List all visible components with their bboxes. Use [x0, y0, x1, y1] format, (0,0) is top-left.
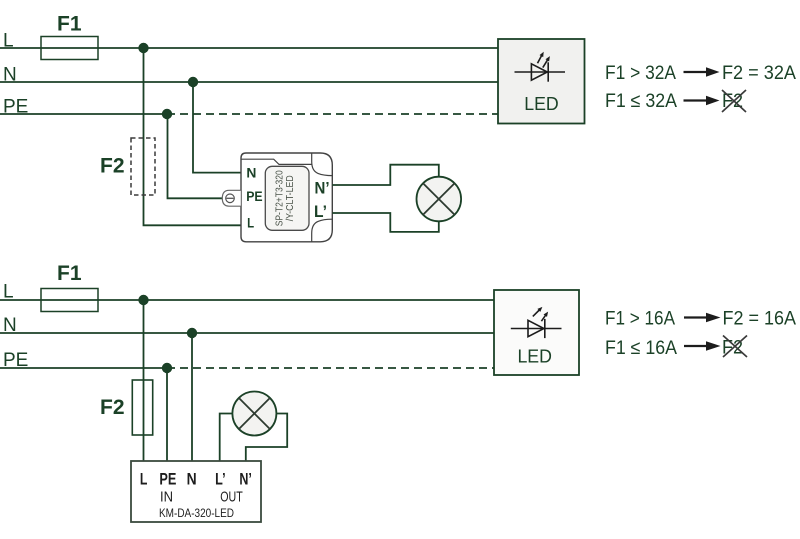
wire L bus top [0, 47, 498, 49]
SPD tab cut bottom-right [312, 219, 333, 242]
svg-text:L’: L’ [314, 202, 327, 221]
svg-text:L’: L’ [215, 470, 226, 489]
arrow 1 top [684, 71, 709, 73]
wire PE bus dashed bottom [167, 367, 494, 369]
SPD PE screw tab [222, 190, 241, 206]
fuse F2 bottom [132, 380, 152, 435]
wire lamp left bottom [220, 414, 233, 468]
LED diode symbol bottom [511, 309, 562, 338]
svg-text:N: N [3, 315, 17, 336]
SPD type text rotated [274, 170, 297, 226]
svg-text:F2 = 32A: F2 = 32A [722, 62, 796, 84]
svg-text:N: N [246, 165, 256, 180]
wire PE bus dashed top [167, 113, 498, 115]
fuse F1 bottom [41, 289, 98, 312]
device KM-DA-320-LED box [131, 461, 261, 522]
svg-text:PE: PE [3, 350, 28, 371]
fuse F1 top [41, 37, 98, 60]
wire PE drop top [168, 114, 224, 198]
svg-text:F1: F1 [57, 13, 82, 36]
svg-text:L: L [247, 216, 254, 231]
wire N bus bottom [0, 332, 494, 334]
svg-text:PE: PE [246, 189, 262, 204]
wire PE bus solid bottom [0, 367, 167, 369]
svg-text:F2 = 16A: F2 = 16A [723, 308, 797, 330]
wire L bus bottom [0, 299, 494, 301]
node L junction top [138, 43, 148, 53]
svg-text:F2: F2 [100, 396, 125, 419]
wire PE bus solid top [0, 113, 167, 115]
lamp E2 bottom [232, 392, 276, 436]
LED luminaire box bottom [494, 290, 579, 375]
SPD PE screw head [226, 194, 235, 203]
SPD lid line [241, 159, 312, 164]
LED luminaire box top [498, 39, 585, 124]
svg-text:F1 ≤ 32A: F1 ≤ 32A [605, 90, 677, 112]
svg-text:N’: N’ [315, 178, 330, 197]
node N junction bottom [187, 328, 197, 338]
svg-text:/Y-CLT-LED: /Y-CLT-LED [284, 175, 296, 221]
arrow 2 top [684, 99, 709, 101]
wire L drop bottom [143, 300, 145, 467]
LED diode symbol top [515, 54, 566, 81]
SPD label plate [265, 166, 309, 230]
svg-text:L: L [3, 282, 14, 303]
wire N drop bottom [191, 333, 193, 467]
node N junction top [188, 77, 198, 87]
svg-text:LED: LED [524, 93, 559, 114]
SPD tab cut top-right [312, 153, 333, 176]
node PE junction top [162, 109, 172, 119]
node L junction bottom [138, 295, 148, 305]
lamp E1 top [417, 177, 462, 222]
svg-text:OUT: OUT [220, 489, 243, 506]
svg-text:F1: F1 [57, 262, 82, 285]
svg-text:PE: PE [159, 470, 176, 489]
svg-text:PE: PE [3, 97, 28, 118]
node PE junction bottom [162, 363, 172, 373]
svg-text:KM-DA-320-LED: KM-DA-320-LED [159, 508, 234, 520]
svg-text:F1 ≤ 16A: F1 ≤ 16A [605, 337, 677, 359]
SPD module U1 body top [241, 153, 332, 242]
svg-text:N’: N’ [239, 470, 252, 489]
wire N bus top [0, 81, 498, 83]
wire L' to lamp top [332, 213, 439, 232]
arrow 1 bottom [684, 316, 708, 318]
svg-text:F2: F2 [100, 155, 125, 178]
svg-text:N: N [187, 470, 197, 489]
svg-text:L: L [140, 470, 148, 489]
svg-text:IN: IN [160, 489, 173, 506]
svg-text:LED: LED [517, 346, 552, 367]
arrow 2 bottom [684, 345, 708, 347]
wire lamp right bottom [246, 414, 287, 468]
wire N drop top [193, 82, 241, 173]
svg-text:F1 > 32A: F1 > 32A [605, 62, 676, 84]
wire PE drop bottom [166, 368, 168, 467]
wire N' to lamp top [332, 165, 439, 185]
svg-text:L: L [3, 31, 14, 52]
fuse F2 dashed top [131, 138, 155, 195]
svg-text:F1 > 16A: F1 > 16A [605, 308, 675, 330]
svg-text:N: N [3, 65, 17, 86]
wire L drop top [144, 48, 242, 225]
